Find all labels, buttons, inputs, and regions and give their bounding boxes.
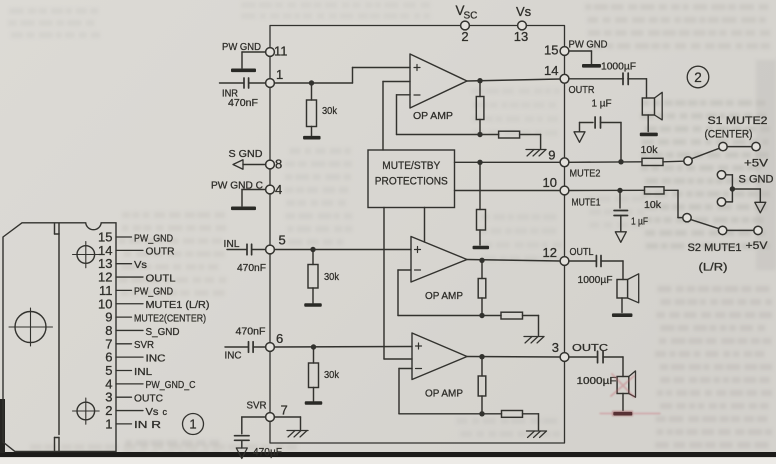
- pin 6 INC input: [266, 331, 284, 351]
- resistor feedback op3 (vertical): [478, 357, 486, 414]
- mounting hole (large, crosshair): [9, 308, 53, 346]
- pin 11 lead/label (PW_GND): [99, 283, 173, 298]
- node mute2 external junction: [618, 159, 623, 164]
- svg-text:PROTECTIONS: PROTECTIONS: [375, 176, 448, 188]
- speaker (OUTL): [617, 261, 639, 313]
- wire op3 feedback to - input: [399, 369, 482, 414]
- pin 7 lead/label (SVR): [105, 336, 154, 351]
- svg-text:(L/R): (L/R): [699, 262, 728, 274]
- node junction pin6: [311, 344, 316, 349]
- signal ground arrow (pin 8): [229, 148, 266, 169]
- wire pin1 to op-amp R + input: [274, 68, 410, 84]
- svg-text:INL: INL: [224, 238, 240, 250]
- svg-text:1: 1: [276, 67, 283, 82]
- svg-text:470nF: 470nF: [236, 326, 266, 338]
- IC package outline (tab + body): [3, 223, 116, 452]
- node op1 feedback junction: [477, 132, 482, 137]
- resistor 30k (INC): [309, 347, 340, 401]
- pin 3 OUTC: [552, 340, 609, 361]
- svg-text:MUTE2(CENTER): MUTE2(CENTER): [134, 312, 206, 324]
- wire pin4 to ground: [242, 190, 266, 207]
- svg-text:3: 3: [552, 340, 559, 355]
- ground bar (30k INL): [304, 303, 322, 307]
- svg-text:PW GND: PW GND: [222, 41, 261, 53]
- wire pin15 to ground: [569, 51, 592, 64]
- pin 8 lead/label (S_GND): [105, 323, 180, 338]
- wire INR input: [220, 82, 244, 84]
- svg-text:1: 1: [189, 417, 196, 432]
- svg-text:OP AMP: OP AMP: [425, 388, 463, 400]
- wire op1 output to pin 14: [467, 79, 560, 81]
- wire mute box to op3: [384, 208, 412, 360]
- speaker (OUTR): [642, 79, 662, 132]
- wire op3 output to pin 3: [467, 356, 560, 359]
- resistor 30k (INL): [308, 250, 340, 304]
- chassis ground (op1): [526, 150, 546, 157]
- wire INL input: [227, 249, 247, 251]
- svg-text:30k: 30k: [324, 271, 340, 283]
- svg-text:Vs: Vs: [516, 4, 532, 19]
- svg-text:PW GND: PW GND: [569, 39, 608, 51]
- pin 15 PW GND: [544, 39, 608, 58]
- svg-text:13: 13: [514, 29, 528, 44]
- svg-text:PW_GND: PW_GND: [134, 286, 173, 298]
- package hole top (crosshair): [73, 242, 100, 268]
- wire SVR right to chassis: [274, 417, 300, 430]
- svg-text:+5V: +5V: [746, 240, 769, 252]
- svg-text:10: 10: [543, 175, 557, 190]
- svg-text:OUTC: OUTC: [134, 393, 163, 405]
- svg-text:1 µF: 1 µF: [631, 216, 648, 228]
- svg-text:9: 9: [548, 148, 555, 163]
- svg-text:12: 12: [543, 245, 557, 260]
- ground bar (30k INC): [305, 401, 323, 405]
- wire INC input: [225, 346, 248, 348]
- node op2 output junction: [479, 258, 484, 263]
- resistor 30k (INR): [307, 83, 338, 136]
- svg-text:S GND: S GND: [739, 174, 774, 186]
- chassis ground (SVR): [287, 431, 308, 438]
- MUTE/STBY protections block: [368, 150, 455, 208]
- wire mute box to op2: [424, 208, 426, 243]
- pin 11 PW GND: [266, 44, 288, 59]
- node op3 feedback junction: [479, 411, 484, 416]
- pin 9 MUTE2: [548, 148, 600, 180]
- wire pin5 to op-amp L + input: [274, 249, 411, 251]
- wire mute box to pin 9: [455, 161, 561, 163]
- svg-text:OUTL: OUTL: [146, 272, 176, 284]
- pin 10 MUTE1: [543, 175, 601, 209]
- op-amp U1b (L): [411, 237, 467, 303]
- svg-text:7: 7: [281, 403, 288, 418]
- capacitor 1uF (OUTR-MUTE2): [580, 98, 622, 162]
- svg-text:1000µF: 1000µF: [578, 274, 613, 286]
- svg-text:1 µF: 1 µF: [592, 98, 612, 110]
- wire op2 feedback to - input: [398, 270, 482, 316]
- svg-text:SC: SC: [464, 11, 478, 22]
- svg-text:470µF: 470µF: [253, 447, 282, 459]
- wire pin9 to R-mute: [569, 161, 642, 164]
- pin 1 lead/label (IN R): [105, 416, 161, 431]
- wire mute box to op1: [383, 82, 410, 151]
- capacitor 1000uF (OUTR): [569, 61, 647, 85]
- resistor 10k (MUTE1): [644, 187, 683, 218]
- svg-text:5: 5: [279, 233, 286, 248]
- svg-text:S GND: S GND: [229, 148, 263, 160]
- ground bar (OUTC speaker): [613, 412, 632, 416]
- signal ground (1uF MUTE1): [615, 232, 626, 243]
- svg-text:INC: INC: [225, 350, 242, 362]
- pin 4 lead/label (PW_GND_C): [105, 376, 196, 391]
- ground bar (OUTL speaker): [612, 313, 633, 317]
- svg-text:10k: 10k: [641, 144, 659, 156]
- capacitor 470uF (SVR): [235, 436, 250, 448]
- svg-text:MUTE1: MUTE1: [572, 197, 601, 209]
- svg-text:PW_GND: PW_GND: [134, 232, 173, 244]
- pin 9 lead/label (MUTE2(CENTER)): [105, 310, 206, 325]
- capacitor 470nF (INL): [224, 238, 267, 274]
- svg-text:INL: INL: [134, 366, 152, 378]
- svg-text:Vs: Vs: [134, 259, 147, 271]
- svg-text:1: 1: [105, 416, 112, 431]
- pin 12 lead/label (OUTL): [98, 270, 176, 285]
- signal ground (SVR cap): [236, 447, 282, 459]
- node Vs pin 13: [514, 4, 532, 44]
- svg-text:MUTE/STBY: MUTE/STBY: [382, 160, 441, 172]
- svg-text:OUTR: OUTR: [146, 246, 175, 258]
- svg-text:2: 2: [461, 29, 468, 44]
- resistor op1 to chassis (horizontal): [480, 131, 541, 148]
- switch S1 MUTE2 (CENTER): [684, 115, 769, 170]
- node op3 output junction: [479, 354, 484, 359]
- pin 13 lead/label (Vs): [98, 256, 147, 271]
- S GND switch common contacts: [717, 171, 773, 206]
- node mute1 external junction: [617, 188, 622, 193]
- svg-text:OP AMP: OP AMP: [425, 290, 463, 302]
- svg-text:4: 4: [275, 182, 282, 197]
- node junction pin5: [310, 247, 315, 252]
- wire pin11 to ground: [242, 52, 266, 68]
- svg-text:10k: 10k: [644, 199, 662, 211]
- circled 2 figure label: [687, 66, 709, 88]
- capacitor 1uF (MUTE1): [614, 190, 648, 231]
- ground bar (OUTR speaker): [640, 133, 658, 137]
- svg-text:IN R: IN R: [134, 419, 162, 431]
- chassis ground (op2): [524, 337, 544, 344]
- ground bar (30k INR): [303, 136, 321, 140]
- svg-text:2: 2: [694, 70, 702, 85]
- svg-text:S1 MUTE2: S1 MUTE2: [708, 115, 768, 127]
- op-amp U1a (R): [410, 54, 467, 122]
- resistor op2 to chassis (horizontal): [482, 312, 539, 335]
- ground bar (mute pulldown): [473, 246, 490, 250]
- pin 4 PW GND C: [266, 182, 283, 197]
- svg-text:SVR: SVR: [134, 339, 154, 351]
- svg-text:Vs: Vs: [146, 406, 159, 418]
- wire mute box to pin 10: [455, 190, 561, 192]
- svg-text:1000µF: 1000µF: [577, 375, 617, 387]
- svg-text:470nF: 470nF: [228, 97, 258, 109]
- resistor mute pulldown: [477, 162, 486, 245]
- wire op2 output to pin 12: [467, 260, 560, 262]
- IC boundary box U1: [270, 26, 565, 444]
- svg-text:30k: 30k: [324, 369, 340, 381]
- wire SVR left: [242, 417, 266, 434]
- pin 3 lead/label (OUTC): [105, 390, 163, 405]
- op-amp U1c (C): [412, 333, 467, 400]
- svg-text:6: 6: [276, 331, 283, 346]
- pin 10 lead/label (MUTE1 (L/R)): [98, 296, 209, 311]
- svg-text:S_GND: S_GND: [146, 326, 180, 338]
- svg-text:PW GND C: PW GND C: [211, 180, 263, 192]
- wire pin10 to R-mute: [569, 189, 645, 191]
- svg-text:(CENTER): (CENTER): [705, 129, 753, 141]
- capacitor 470nF (INR): [222, 78, 266, 109]
- svg-text:15: 15: [544, 43, 558, 58]
- resistor 10k (MUTE2): [641, 144, 684, 166]
- capacitor 1000uF (OUTL): [569, 256, 623, 287]
- svg-text:14: 14: [544, 63, 558, 78]
- svg-text:OP AMP: OP AMP: [413, 110, 453, 122]
- svg-text:S2 MUTE1: S2 MUTE1: [688, 242, 742, 254]
- svg-text:MUTE2: MUTE2: [570, 168, 601, 180]
- node VSC pin 2: [456, 3, 478, 44]
- resistor op3 to chassis (horizontal): [482, 411, 539, 431]
- capacitor 470nF (INC): [225, 326, 266, 362]
- pin 14 lead/label (OUTR): [98, 243, 175, 258]
- capacitor 1000uF (OUTC): [569, 351, 623, 387]
- svg-text:8: 8: [275, 157, 282, 172]
- svg-text:PW_GND_C: PW_GND_C: [146, 379, 196, 391]
- signal ground (1uF): [574, 132, 585, 143]
- pin 15 lead/label (PW_GND): [98, 230, 173, 245]
- power ground bar (pin 15): [582, 64, 601, 68]
- svg-text:SVR: SVR: [247, 400, 267, 412]
- svg-text:OUTR: OUTR: [569, 84, 595, 96]
- package tab/body separation slots: [55, 223, 60, 451]
- red check mark (OUTC speaker): [600, 374, 660, 416]
- svg-text:30k: 30k: [322, 105, 338, 117]
- pin 8 S GND: [266, 157, 283, 172]
- node op2 feedback junction: [479, 313, 484, 318]
- svg-text:INC: INC: [146, 352, 166, 364]
- node op1 output junction: [477, 78, 482, 83]
- pin 6 lead/label (INC): [105, 350, 166, 365]
- pin 14 OUTR: [544, 63, 595, 96]
- svg-text:OUTL: OUTL: [570, 246, 594, 258]
- svg-text:470nF: 470nF: [237, 262, 266, 274]
- svg-text:MUTE1 (L/R): MUTE1 (L/R): [146, 299, 210, 311]
- circled 1 figure label: [183, 414, 204, 435]
- svg-text:11: 11: [274, 44, 288, 59]
- wire op1 feedback to - input: [397, 95, 481, 135]
- pin 12 OUTL: [543, 245, 594, 265]
- svg-text:+5V: +5V: [744, 158, 769, 170]
- node junction pin1: [309, 80, 314, 85]
- wire pin6 to op-amp C + input: [274, 346, 412, 349]
- chassis ground (op3): [527, 431, 547, 438]
- signal ground (switch common): [755, 202, 766, 213]
- power ground bar (pin 4): [211, 180, 263, 211]
- svg-text:c: c: [163, 407, 168, 417]
- power ground bar (pin 11): [222, 41, 261, 72]
- pin 7 SVR: [247, 400, 288, 422]
- svg-text:1000µF: 1000µF: [601, 61, 636, 73]
- resistor feedback op1 (vertical): [476, 81, 484, 135]
- pin 1 INR input: [266, 67, 284, 87]
- speaker (OUTC): [617, 357, 635, 411]
- switch S2 MUTE1 (L/R): [683, 214, 768, 274]
- pin 5 INL input: [266, 233, 286, 254]
- package hole bottom (crosshair): [73, 398, 100, 424]
- resistor feedback op2 (vertical): [478, 260, 486, 315]
- pin 2 lead/label (Vs c): [105, 403, 167, 418]
- pin 5 lead/label (INL): [105, 363, 152, 378]
- node mute2 internal junction: [477, 160, 482, 165]
